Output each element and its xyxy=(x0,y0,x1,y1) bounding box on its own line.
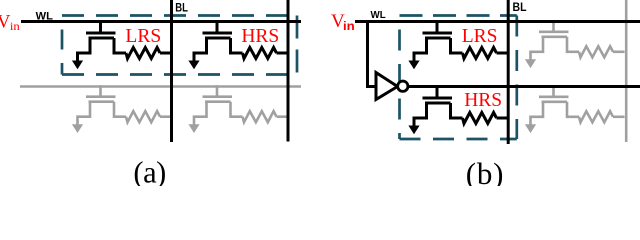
cell A2 transistor+HRS channel bar xyxy=(205,37,231,40)
svg-text:LRS: LRS xyxy=(462,26,498,47)
bit line BL1 (subfig a) xyxy=(170,0,173,142)
selection box B top edge xyxy=(400,14,517,17)
gray cell B3 (col2 row1) gate bar xyxy=(539,30,569,33)
cell B2 transistor+HRS drain wire xyxy=(451,103,463,118)
cell B2 transistor+HRS wire to bitline xyxy=(497,117,509,120)
cell A1 transistor+LRS channel bar xyxy=(89,37,115,40)
gray bit line (subfig b) xyxy=(625,0,628,142)
cell B1 transistor+LRS gate bar xyxy=(423,32,453,35)
gray cell A4 (row2 col2) source arrowhead xyxy=(188,124,199,133)
cell B2 transistor+HRS resistor zigzag xyxy=(463,113,497,124)
svg-text:in: in xyxy=(10,19,20,33)
cell A1 transistor+LRS source arrowhead xyxy=(72,61,83,70)
gray cell B3 (col2 row1) channel bar xyxy=(542,35,568,38)
gray cell B4 (col2 row2) drain wire xyxy=(567,102,579,117)
gray cell A4 (row2 col2) resistor zigzag xyxy=(243,111,277,122)
inverter U1 bubble xyxy=(398,81,408,91)
cell A1 transistor+LRS source wire xyxy=(78,38,91,62)
svg-text:WL: WL xyxy=(371,10,386,21)
gray cell B3 (col2 row1) gate stub xyxy=(552,20,555,32)
cell A2 transistor+HRS resistor zigzag xyxy=(243,48,277,59)
cell B1 transistor+LRS resistor zigzag xyxy=(463,48,497,59)
gray cell A4 (row2 col2) source wire xyxy=(194,102,207,126)
cell B2 transistor+HRS channel bar xyxy=(425,102,451,105)
selection box A top edge xyxy=(62,14,297,17)
selection box A bottom edge xyxy=(62,73,297,76)
cell B2 transistor+HRS source wire xyxy=(414,103,427,127)
selection box B left edge xyxy=(398,30,401,140)
inverted word line (inverter output) xyxy=(408,85,640,88)
cell B1 transistor+LRS channel bar xyxy=(425,37,451,40)
gray cell A4 (row2 col2) gate stub xyxy=(216,85,219,97)
gray cell B3 (col2 row1) source wire xyxy=(531,37,544,61)
cell B1 transistor+LRS source wire xyxy=(414,38,427,62)
cell B2 transistor+HRS gate bar xyxy=(423,97,453,100)
cell A1 transistor+LRS gate stub xyxy=(99,22,102,34)
word line WL2 (gray, subfig a) xyxy=(20,85,301,88)
gray cell A3 (row2 col1) channel bar xyxy=(89,100,115,103)
svg-text:in: in xyxy=(343,21,355,33)
wire WL to inverter input xyxy=(368,22,378,87)
cell B1 transistor+LRS drain wire xyxy=(451,38,463,53)
svg-text:HRS: HRS xyxy=(241,26,279,47)
gray cell B4 (col2 row2) gate stub xyxy=(552,85,555,97)
gray cell B3 (col2 row1) resistor zigzag xyxy=(579,46,613,57)
gray cell A3 (row2 col1) gate bar xyxy=(86,95,116,98)
cell A1 transistor+LRS drain wire xyxy=(114,38,126,53)
svg-text:BL: BL xyxy=(513,1,527,14)
cell B1 transistor+LRS gate stub xyxy=(436,22,439,34)
cell A2 transistor+HRS gate stub xyxy=(216,22,219,34)
gray cell A3 (row2 col1) gate stub xyxy=(99,85,102,97)
cell B2 transistor+HRS source arrowhead xyxy=(408,126,419,135)
cell A2 transistor+HRS source arrowhead xyxy=(188,61,199,70)
word line WL (subfig b) xyxy=(355,20,640,23)
cell A1 transistor+LRS gate bar xyxy=(86,32,116,35)
svg-text:HRS: HRS xyxy=(464,90,502,111)
svg-text:WL: WL xyxy=(36,10,53,22)
svg-text:(b): (b) xyxy=(466,156,505,186)
cell A2 transistor+HRS wire to bitline xyxy=(277,52,289,55)
gray cell A3 (row2 col1) resistor zigzag xyxy=(126,111,160,122)
selection box A left edge xyxy=(61,30,64,75)
gray cell A3 (row2 col1) source wire xyxy=(78,102,91,126)
gray cell B4 (col2 row2) resistor zigzag xyxy=(579,111,613,122)
gray cell A3 (row2 col1) drain wire xyxy=(114,102,126,117)
gray cell B4 (col2 row2) source wire xyxy=(531,102,544,126)
gray cell A4 (row2 col2) channel bar xyxy=(205,100,231,103)
svg-text:BL: BL xyxy=(175,1,188,15)
bit line BL (subfig b) xyxy=(507,0,510,144)
word line WL1 (subfig a) xyxy=(21,20,301,23)
cell B2 transistor+HRS gate stub xyxy=(436,87,439,99)
gray cell B3 (col2 row1) source arrowhead xyxy=(525,59,536,68)
gray cell A4 (row2 col2) gate bar xyxy=(203,95,233,98)
cell B1 transistor+LRS source arrowhead xyxy=(408,61,419,70)
cell A2 transistor+HRS gate bar xyxy=(203,32,233,35)
svg-text:(a): (a) xyxy=(133,156,165,187)
gray cell B3 (col2 row1) drain wire xyxy=(567,37,579,52)
gray cell A3 (row2 col1) wire to bitline xyxy=(160,115,172,118)
bit line BL2 (subfig a) xyxy=(287,0,290,142)
selection box B bottom edge xyxy=(400,138,517,141)
gray cell B4 (col2 row2) source arrowhead xyxy=(525,124,536,133)
inverter U1 triangle xyxy=(376,73,398,100)
gray cell A3 (row2 col1) source arrowhead xyxy=(72,124,83,133)
gray cell B4 (col2 row2) gate bar xyxy=(539,96,569,99)
cell A2 transistor+HRS source wire xyxy=(194,38,207,62)
gray cell B4 (col2 row2) wire to bitline xyxy=(613,116,625,119)
gray cell B4 (col2 row2) channel bar xyxy=(542,101,568,104)
cell A2 transistor+HRS drain wire xyxy=(231,38,243,53)
selection box A right edge xyxy=(296,16,299,75)
gray cell A4 (row2 col2) drain wire xyxy=(231,102,243,117)
gray cell A4 (row2 col2) wire to bitline xyxy=(277,115,289,118)
cell A1 transistor+LRS resistor zigzag xyxy=(126,48,160,59)
selection box B right edge xyxy=(515,16,518,140)
cell A1 transistor+LRS wire to bitline xyxy=(160,52,172,55)
gray cell B3 (col2 row1) wire to bitline xyxy=(613,50,625,53)
svg-text:LRS: LRS xyxy=(125,26,161,47)
cell B1 transistor+LRS wire to bitline xyxy=(497,52,509,55)
